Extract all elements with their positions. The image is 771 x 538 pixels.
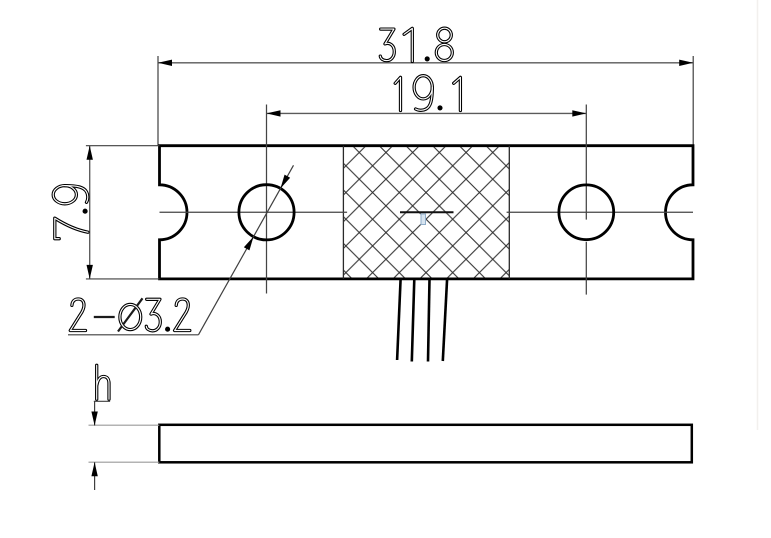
horizontal centerline segment left (160, 211, 348, 213)
right hole vertical centerline upper (585, 105, 587, 220)
wire 1 (397, 279, 401, 360)
left hole (239, 185, 294, 240)
dimension 7.9 top arrow (87, 146, 93, 160)
dimension 31.8 left extension line (157, 56, 159, 146)
left hole vertical centerline (266, 105, 268, 294)
side view plate (159, 425, 692, 463)
crosshatch left boundary (342, 146, 344, 279)
dimension h upper leader segment (94, 402, 96, 426)
dimension h top extension line (89, 424, 160, 426)
beam top view outline (160, 146, 694, 279)
dimension h upper arrow (pointing down) (91, 412, 97, 426)
h underline (94, 400, 110, 402)
wire 2 (412, 279, 415, 362)
leader lower arrow (244, 237, 254, 251)
right hole (559, 185, 614, 240)
dimension text 31.8 (380, 28, 452, 61)
dimension 7.9 bottom extension line (86, 278, 160, 280)
dimension text h (97, 365, 109, 399)
dimension 19.1 dim line (267, 112, 587, 114)
label text 2-phi3.2 (70, 298, 190, 331)
leader line for 2-phi3.2 (199, 165, 294, 334)
dimension h lower leader segment (94, 462, 96, 490)
dimension 31.8 left arrow (158, 60, 172, 66)
dimension 7.9 bottom arrow (87, 265, 93, 279)
missing glyph blue box (421, 214, 426, 225)
dimension 19.1 left arrow (267, 110, 281, 116)
right hole vertical centerline lower (585, 242, 587, 295)
wire 3 (428, 279, 430, 362)
dimension h bottom extension line (89, 461, 160, 463)
dimension 31.8 right extension line (692, 56, 694, 146)
dimension 7.9 dim line (89, 146, 91, 279)
strain gauge crosshatch block (343, 147, 509, 278)
horizontal centerline segment middle (gauge mark) (400, 211, 454, 213)
dimension h lower arrow (pointing up) (91, 462, 97, 476)
leader upper arrow (281, 175, 291, 189)
dimension 31.8 dim line (158, 62, 693, 64)
wire 4 (443, 279, 447, 361)
faint page edge line (757, 0, 759, 430)
dimension 7.9 top extension line (86, 145, 160, 147)
crosshatch right boundary (508, 146, 510, 279)
dimension 31.8 right arrow (679, 60, 693, 66)
horizontal centerline segment right (507, 211, 693, 213)
label underline (68, 334, 199, 336)
dimension text 19.1 (395, 76, 460, 111)
dimension 19.1 right arrow (572, 110, 586, 116)
dimension text 7.9 (rotated) (53, 186, 88, 239)
